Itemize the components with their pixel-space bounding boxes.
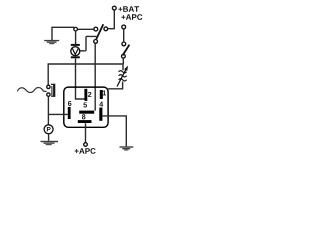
switch S1 right contact <box>104 27 108 31</box>
terminal +BAT circle <box>112 6 116 10</box>
pin 2 label <box>88 92 91 97</box>
wire W1 wavy harness <box>17 88 46 93</box>
node J1 junction circle on bus1 <box>74 27 78 31</box>
breaker points K1 upper contact <box>47 85 50 88</box>
breaker points K1 lower contact <box>47 93 50 96</box>
label +APC top <box>121 14 142 20</box>
wire bus2 horizontal <box>48 64 123 85</box>
pin 5 label <box>83 102 87 107</box>
pin 6 label <box>68 101 71 106</box>
wire points to pin 6 and P switch <box>48 96 67 125</box>
wire lamp L1 stub to switch S1 blade <box>80 36 96 50</box>
pin 1 label <box>103 90 106 95</box>
switch S2 top contact <box>122 42 126 46</box>
ground G3 right chassis <box>120 146 134 150</box>
ground G1 top-left chassis <box>44 40 59 44</box>
wire S1 right contact to +BAT terminal <box>108 10 115 29</box>
switch S2 bottom contact <box>122 54 126 58</box>
pressure switch P letter <box>47 127 51 132</box>
wire P to ground G2 <box>48 134 50 141</box>
wire S2 to bus2 <box>122 58 124 64</box>
lamp L1 (indicator bulb) <box>71 44 80 58</box>
pin 8 label <box>82 114 86 119</box>
wire lamp bottom down to pin 2 <box>76 59 85 100</box>
wire pin 8 to +APC bottom terminal <box>85 123 87 143</box>
terminal +APC top circle <box>122 25 126 29</box>
pin 6 bar <box>68 107 71 119</box>
arrow across R1 <box>117 69 126 86</box>
breaker points K1 bracket bar <box>53 84 55 97</box>
switch S1 left contact <box>94 27 98 31</box>
wire J1 to lamp L1 <box>75 31 77 44</box>
resistor R1 wavy element <box>119 71 127 81</box>
pin 4 bar <box>99 108 102 121</box>
relay box U1 outline <box>64 87 108 127</box>
label +BAT <box>118 6 139 12</box>
label +APC bottom <box>75 148 96 154</box>
switch S1 blade <box>96 24 103 39</box>
pin 8 bar <box>78 120 92 123</box>
pin 4 label <box>99 102 103 107</box>
breaker points K1 bracket hooks <box>51 84 53 96</box>
wire +APC terminal to switch S2 <box>123 29 125 42</box>
pin 5 bar <box>79 111 94 114</box>
breaker points K1 inner line <box>51 86 53 95</box>
wire R1 bottom to relay pin 1 <box>108 82 122 89</box>
switch S2 blade <box>123 45 130 56</box>
wire S1 common down to pin 5 <box>94 43 96 110</box>
terminal +APC bottom circle <box>84 143 88 147</box>
wire ground G1 to bus1 left <box>52 27 74 40</box>
pin 1 bar <box>100 90 103 99</box>
pressure switch P circle <box>44 125 53 134</box>
ground G2 bottom-left chassis <box>41 141 59 145</box>
switch S1 common contact <box>94 40 98 44</box>
wire bus1 right to S1 <box>77 28 94 30</box>
wire pin 4 to right ground G3 <box>102 116 126 146</box>
pin 2 bar <box>84 89 87 101</box>
